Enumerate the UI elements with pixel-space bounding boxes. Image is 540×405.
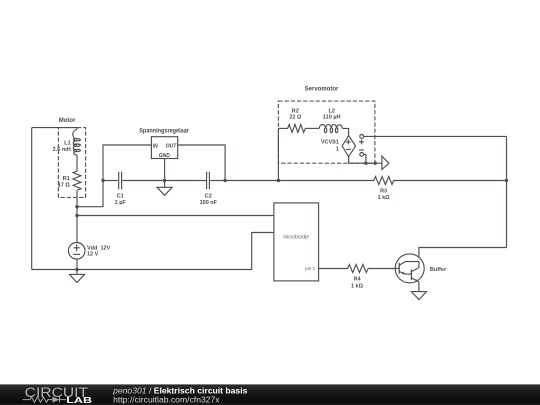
svg-text:110 µH: 110 µH (323, 115, 341, 121)
svg-text:Spanningsregelaar: Spanningsregelaar (139, 129, 189, 135)
svg-text:R1: R1 (63, 176, 70, 182)
wire R4 to transistor (368, 268, 395, 270)
ground (Vdd) (70, 270, 85, 283)
svg-text:L1: L1 (64, 140, 70, 146)
resistor R1 (73, 171, 81, 190)
VCVS1 dependent source (342, 135, 364, 157)
C1 label (115, 193, 127, 206)
wire L1 to R1 (76, 155, 78, 171)
wire motor top drop (76, 128, 78, 130)
svg-text:C2: C2 (205, 193, 212, 199)
wire source bottom (76, 259, 78, 269)
wire control+ to right (364, 135, 507, 137)
Buffer label (430, 267, 447, 273)
svg-text:OUT: OUT (166, 143, 178, 149)
svg-text:Servomotor: Servomotor (305, 86, 339, 92)
main bus wire y180.5 (103, 180, 118, 182)
Servomotor label (305, 86, 339, 92)
wire pin1 to R4 (319, 268, 348, 270)
wire R3 right (394, 180, 507, 182)
wire left vertical (31, 128, 33, 270)
node junction box edge (374, 162, 377, 165)
wire C1 to C2 (123, 180, 207, 182)
svg-text:Vdd_12V: Vdd_12V (87, 246, 111, 252)
R2 label (289, 108, 302, 120)
svg-text:http://circuitlab.com/cfn327x: http://circuitlab.com/cfn327x (113, 395, 220, 405)
control terminal + (360, 135, 364, 139)
svg-text:1: 1 (336, 147, 339, 153)
servomotor dashed box (278, 101, 375, 163)
capacitor C1 (119, 172, 122, 190)
transistor Q1 darlington buffer (395, 254, 424, 283)
wire L2 to VCVS top (342, 128, 348, 135)
wire top-left horizontal (32, 127, 77, 129)
logo zigzag diode line (23, 397, 67, 403)
footer bar (0, 384, 540, 405)
control terminal - (360, 153, 364, 157)
resistor R4 (348, 265, 369, 273)
svg-text:GND: GND (159, 153, 171, 159)
svg-text:2.6 mH: 2.6 mH (53, 147, 71, 153)
capacitor C2 (207, 172, 210, 190)
microcontroller box (274, 203, 319, 281)
svg-text:microbordje: microbordje (283, 235, 309, 241)
svg-text:1 µF: 1 µF (115, 200, 127, 206)
VCVS1 label (321, 140, 339, 153)
node junction servo/bus (277, 179, 280, 182)
resistor R3 (374, 177, 394, 185)
Vdd label (87, 246, 111, 258)
wire to regulator IN (77, 145, 151, 207)
wire servo row (278, 127, 287, 129)
svg-text:100 nF: 100 nF (200, 200, 218, 206)
node junction OUT/bus (223, 179, 226, 182)
wire to source top (76, 216, 78, 243)
Motor label (59, 118, 76, 124)
svg-text:22 Ω: 22 Ω (289, 115, 302, 121)
node junction source/ground (75, 268, 78, 271)
node junction bus/IN wire (101, 179, 104, 182)
svg-text:1 kΩ: 1 kΩ (378, 195, 391, 201)
svg-text:IN: IN (153, 143, 158, 149)
R1 label (58, 176, 71, 188)
node junction long wire (75, 214, 78, 217)
svg-text:C1: C1 (117, 193, 124, 199)
C2 label (200, 193, 218, 206)
ground (emitter) (411, 292, 426, 300)
wire collector top (419, 248, 507, 262)
wire R1 down (76, 190, 78, 206)
svg-text:L2: L2 (328, 108, 334, 114)
node junction control- (364, 162, 367, 165)
inductor L1 (73, 129, 81, 155)
node junction R1/IN (75, 205, 78, 208)
svg-text:R4: R4 (353, 277, 361, 283)
svg-text:Motor: Motor (59, 118, 76, 124)
node junction GND regulator (163, 179, 166, 182)
resistor R2 (288, 124, 306, 132)
wire junction to junction (76, 207, 78, 216)
svg-text:R3: R3 (380, 189, 387, 195)
voltage regulator U box (151, 137, 177, 159)
svg-text:1 kΩ: 1 kΩ (351, 283, 364, 289)
R4 label (351, 277, 364, 290)
ground (regulator) (157, 181, 172, 196)
svg-text:Buffer: Buffer (430, 267, 447, 273)
wire right vertical (506, 136, 508, 247)
Spanningsregelaar label (139, 129, 189, 135)
voltage source Vdd_12V (68, 243, 85, 260)
motor dashed box (58, 128, 85, 198)
wire regulator OUT (178, 145, 225, 181)
svg-text:VCVS1: VCVS1 (321, 140, 339, 146)
wire C2 right (210, 180, 374, 182)
svg-text:17 Ω: 17 Ω (58, 182, 71, 188)
wire VCVS bottom (349, 157, 382, 164)
svg-text:pin 1: pin 1 (305, 266, 316, 271)
wire long to microcontroller (77, 215, 274, 217)
wire control- down (364, 154, 366, 163)
svg-text:R2: R2 (292, 108, 299, 114)
flag arrow (382, 156, 389, 169)
node junction right/bus (505, 179, 508, 182)
L2 label (323, 108, 341, 120)
wire emitter down (418, 282, 420, 292)
wire R2 to L2 (305, 127, 319, 129)
svg-text:LAB: LAB (66, 395, 92, 405)
inductor L2 (319, 124, 342, 132)
wire bottom bus to microcontroller (32, 233, 274, 270)
L1 label (53, 140, 71, 153)
wire regulator GND down (164, 159, 166, 181)
svg-text:12 V: 12 V (87, 252, 99, 258)
wire servo left vertical (277, 128, 279, 180)
R3 label (378, 189, 391, 201)
